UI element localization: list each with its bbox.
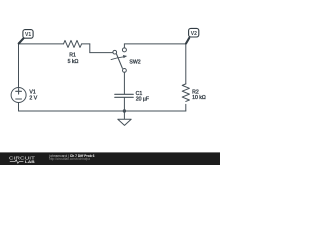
svg-text:SW2: SW2 bbox=[129, 59, 140, 65]
switch SW2 bbox=[111, 48, 127, 72]
wire right vertical down to R2 bbox=[185, 44, 187, 84]
wire bottom-left vertical up to V1 source bottom bbox=[18, 103, 20, 111]
resistor R1 bbox=[64, 40, 82, 47]
wire top horizontal V1 corner to R1 bbox=[19, 43, 64, 45]
svg-text:LAB: LAB bbox=[25, 160, 35, 164]
svg-text:5 kΩ: 5 kΩ bbox=[68, 59, 79, 65]
wire top-right horizontal to V2 corner bbox=[124, 43, 185, 45]
wire switch common down to C1 top bbox=[123, 72, 125, 94]
node label V2 bbox=[186, 28, 199, 43]
node label V1 bbox=[19, 30, 33, 44]
svg-text:R1: R1 bbox=[69, 52, 76, 58]
wire C1 bottom to ground node bbox=[123, 98, 125, 111]
footer bar bbox=[0, 152, 220, 165]
wire switch top terminal up to top rail bbox=[123, 44, 125, 48]
wire to switch left throw terminal bbox=[90, 52, 113, 54]
wire left vertical corner down to V1 source top bbox=[18, 44, 20, 88]
svg-text:2 V: 2 V bbox=[29, 96, 37, 102]
ground bbox=[118, 111, 131, 125]
wire bottom rail bbox=[19, 110, 186, 112]
svg-text:V1: V1 bbox=[25, 32, 31, 38]
svg-text:http://circuitlab.com/c/chbafp: http://circuitlab.com/c/chbafpa bbox=[49, 157, 90, 161]
svg-text:V2: V2 bbox=[191, 31, 197, 37]
footer credits bbox=[49, 154, 95, 161]
svg-text:20 µF: 20 µF bbox=[136, 96, 149, 102]
footer logo CIRCUIT LAB bbox=[9, 155, 36, 164]
svg-text:10 kΩ: 10 kΩ bbox=[192, 95, 206, 101]
resistor R2 bbox=[182, 84, 189, 102]
voltage source V1 bbox=[11, 88, 26, 103]
capacitor C1 bbox=[115, 94, 133, 97]
wire R2 bottom lead bbox=[185, 104, 187, 111]
wire R1 right lead bbox=[82, 43, 90, 45]
junction dot at ground node bbox=[123, 109, 126, 112]
wire step down to switch level bbox=[89, 44, 91, 53]
